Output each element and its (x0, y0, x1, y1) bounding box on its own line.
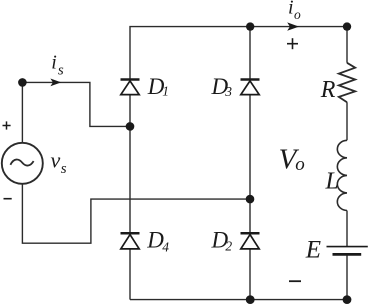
svg-text:2: 2 (225, 238, 232, 253)
diode D2 (241, 233, 260, 249)
output minus polarity (289, 280, 301, 282)
svg-text:i: i (288, 0, 294, 19)
svg-text:4: 4 (162, 239, 169, 254)
wire D3 to node B (249, 95, 251, 233)
junction node B (D3-D2, return) (246, 195, 255, 204)
svg-text:v: v (51, 147, 61, 172)
svg-text:3: 3 (224, 84, 232, 99)
output plus polarity (287, 38, 298, 49)
svg-text:L: L (325, 169, 339, 195)
source minus polarity (4, 198, 12, 200)
battery E (327, 247, 368, 255)
wire D2 to bottom rail (249, 249, 251, 299)
diode D1 (121, 80, 140, 95)
inductor L (337, 140, 347, 210)
svg-text:R: R (320, 77, 336, 103)
svg-text:o: o (294, 7, 301, 22)
current arrow io (287, 22, 299, 30)
wire D1 to junction A (129, 95, 131, 234)
source plus polarity (3, 121, 11, 129)
svg-text:s: s (58, 62, 64, 78)
junction node A (D1-D4, input) (126, 122, 135, 131)
ac source sine symbol (10, 160, 33, 166)
junction node top-right (343, 22, 351, 30)
resistor R (339, 63, 355, 102)
junction node bottom-right (343, 295, 352, 304)
wire bottom rail (130, 299, 347, 301)
node source-top (18, 78, 27, 87)
wire source minus lead return to node B (22, 184, 250, 243)
svg-text:s: s (61, 161, 67, 177)
wire inductor to battery (346, 211, 348, 247)
wire battery to bottom rail (346, 256, 348, 300)
svg-text:E: E (305, 237, 321, 264)
diode D4 (121, 233, 140, 249)
wire D4 to bottom rail (129, 249, 131, 299)
wire is path from source to junction A (22, 82, 130, 126)
wire source plus lead (21, 82, 23, 142)
svg-text:i: i (51, 52, 57, 74)
junction node bottom (D2 bottom rail) (246, 295, 255, 304)
wire D3 column (249, 27, 251, 80)
wire resistor to inductor (346, 102, 348, 140)
diode D3 (241, 80, 260, 95)
wire right column top (dot to resistor) (346, 27, 348, 63)
wire top rail (130, 27, 347, 80)
current arrow is (50, 79, 61, 87)
ac source VS circle (2, 143, 43, 184)
junction node top (D3 top rail) (246, 22, 254, 30)
svg-text:o: o (295, 154, 305, 175)
svg-text:1: 1 (162, 84, 169, 99)
